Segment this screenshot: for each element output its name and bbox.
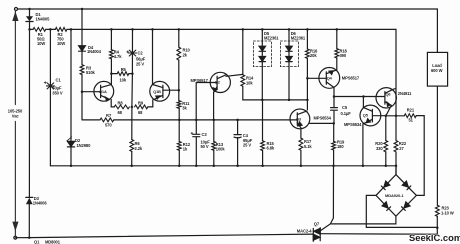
- bridge diode top-left: [384, 181, 390, 187]
- svg-text:2k: 2k: [183, 52, 188, 57]
- node: second rail junctions: [28, 28, 31, 31]
- wire: R18 branch: [336, 29, 338, 70]
- svg-text:Vac: Vac: [12, 114, 20, 119]
- resistor R11: [177, 101, 181, 109]
- svg-text:27: 27: [399, 146, 404, 151]
- svg-text:Q7: Q7: [314, 221, 320, 226]
- svg-text:3k: 3k: [182, 105, 187, 110]
- wire: Q1B collector from rail: [152, 29, 154, 84]
- transistor Q3: [290, 109, 310, 138]
- svg-text:1k: 1k: [183, 146, 188, 151]
- wire: Q4 output line to Q6 base: [334, 96, 376, 98]
- svg-text:10W: 10W: [37, 41, 45, 46]
- transistor Q1A: [94, 81, 114, 107]
- wire: R13 branch: [213, 120, 215, 166]
- node: Q1A base tap: [81, 90, 84, 93]
- wire: Q3 emitter to R17 and to C5 node: [310, 122, 334, 124]
- resistor R13: [212, 142, 216, 151]
- svg-text:MPS6517: MPS6517: [191, 78, 209, 83]
- svg-text:2.2k: 2.2k: [135, 146, 143, 151]
- resistor R10: [177, 47, 181, 60]
- resistor R14: [241, 75, 245, 86]
- svg-text:C2: C2: [138, 51, 144, 56]
- svg-text:180: 180: [337, 144, 344, 149]
- wire: Q2 collector diagonal to R14 line: [226, 74, 243, 76]
- wire: bottom return wire: [15, 228, 437, 238]
- svg-text:MPS6534: MPS6534: [344, 122, 362, 127]
- diode D2 zener 1N2984: [67, 137, 75, 166]
- resistor R16: [306, 49, 310, 58]
- svg-text:R7: R7: [106, 113, 112, 118]
- svg-text:Q1: Q1: [34, 239, 40, 244]
- svg-text:C3: C3: [202, 132, 208, 137]
- svg-text:5.1k: 5.1k: [304, 144, 312, 149]
- resistor R15: [261, 141, 265, 151]
- wire: D2 branch: [70, 29, 72, 141]
- resistor R23: [435, 205, 439, 216]
- node: Q4 base tap: [306, 77, 309, 80]
- wire: R16 / Q3 collector / Q4 base branch: [307, 29, 318, 109]
- resistor R12: [177, 142, 181, 151]
- resistor R6: [130, 140, 134, 152]
- svg-text:4.7k: 4.7k: [114, 54, 122, 59]
- wire: Q5 base node line with R21: [386, 116, 424, 196]
- capacitor C4: [234, 135, 241, 138]
- svg-text:50 V: 50 V: [201, 144, 209, 149]
- svg-text:Q1A: Q1A: [99, 89, 107, 94]
- wire: ground bus: [50, 165, 396, 167]
- wire: R4 bottom to Q1A collector: [110, 59, 112, 85]
- node: Q6 base line junctions: [333, 95, 336, 98]
- svg-text:68: 68: [138, 110, 143, 115]
- wire: emitter joins: [111, 106, 153, 108]
- resistor R5: [117, 72, 129, 76]
- wire: top rail from input terminal to load: [16, 9, 437, 52]
- svg-text:10k: 10k: [246, 81, 253, 86]
- resistor R9: [135, 105, 148, 109]
- wire: R19 / gate branch: [320, 123, 334, 230]
- transistor Q2: [210, 72, 230, 120]
- svg-text:600 W: 600 W: [431, 68, 443, 73]
- svg-text:MDA920-1: MDA920-1: [385, 193, 404, 198]
- wire: AC source line with arrows: [14, 11, 16, 236]
- transistor Q4: [319, 68, 340, 97]
- diode D3 1N4006: [26, 197, 33, 237]
- node: ground bus junctions: [70, 165, 73, 168]
- diode D1 1N4005: [26, 9, 33, 29]
- wire: Q5 collector up: [362, 97, 364, 108]
- node: D3 / bottom wire junction: [28, 236, 31, 239]
- svg-text:C1: C1: [56, 77, 62, 82]
- capacitor C3: [191, 132, 200, 137]
- node: R4/R5 and C2/R5 junctions: [110, 72, 113, 75]
- svg-text:51: 51: [409, 118, 414, 123]
- resistor R22: [394, 141, 398, 152]
- svg-text:MD8001: MD8001: [45, 239, 61, 244]
- svg-text:MPS6517: MPS6517: [342, 76, 360, 81]
- svg-text:68: 68: [118, 110, 123, 115]
- wire: C5 branch: [333, 97, 335, 124]
- wire: R14 branch: [243, 29, 262, 100]
- wire: reference node line: [262, 99, 307, 101]
- svg-text:R8: R8: [118, 100, 124, 105]
- svg-text:MZ2361: MZ2361: [291, 35, 306, 40]
- wire: divider branch R10/R11/R12: [178, 29, 181, 165]
- node: R23 / return loop junction: [436, 226, 439, 229]
- wire: load bottom to R23: [436, 86, 438, 228]
- dashed box D5: [253, 41, 271, 67]
- triac Q7 MAC2-4: [313, 228, 320, 241]
- bridge diode top-right: [402, 181, 408, 187]
- svg-text:Q2: Q2: [215, 80, 221, 85]
- arrow down (AC input): [12, 222, 18, 232]
- svg-text:SeekIC.com: SeekIC.com: [409, 232, 460, 243]
- dashed box D6: [280, 41, 298, 67]
- svg-text:2N4911: 2N4911: [398, 91, 412, 96]
- wire: long node line to Q3 base: [114, 119, 290, 121]
- wire: C2 branch down through emitter node to R6: [131, 29, 134, 165]
- capacitor C1 (electrolytic, asterisk style): [44, 82, 54, 89]
- wire: R4 branch: [110, 29, 112, 49]
- zener D5 MZ2361 (two in series): [259, 29, 265, 100]
- svg-text:MPS6534: MPS6534: [314, 116, 332, 121]
- load box: [427, 52, 447, 86]
- wire: left vertical D1-D3 column: [28, 29, 30, 197]
- resistor R19: [332, 141, 336, 150]
- capacitor C2 (electrolytic, asterisk style): [127, 50, 137, 56]
- svg-text:C5: C5: [342, 105, 348, 110]
- node: emitter resistor junction: [131, 106, 134, 109]
- svg-text:Q1B: Q1B: [153, 89, 161, 94]
- svg-text:390: 390: [340, 53, 347, 58]
- svg-text:570: 570: [105, 123, 112, 128]
- diode D4 1N4004: [79, 46, 86, 65]
- resistor R18: [335, 49, 339, 58]
- svg-text:Q3: Q3: [296, 117, 302, 122]
- wire: R17 bottom: [300, 150, 302, 166]
- wire: R5 leads: [111, 73, 132, 75]
- svg-text:Q5: Q5: [363, 113, 369, 118]
- node: C5/R19 junction: [332, 122, 335, 125]
- svg-text:10W: 10W: [57, 41, 65, 46]
- svg-text:R9: R9: [138, 100, 144, 105]
- svg-text:350 V: 350 V: [52, 91, 63, 96]
- wire: line-sense branch (top rail to D4): [81, 9, 83, 46]
- transistor Q1B: [150, 81, 170, 107]
- node: long node line junctions: [178, 119, 181, 122]
- bridge diode bottom-left: [382, 202, 388, 208]
- wire: rail right end down to bridge: [395, 29, 397, 174]
- resistor R4: [110, 50, 114, 59]
- transistor Q5: [360, 105, 386, 166]
- resistor R20: [384, 141, 388, 152]
- svg-text:1N2980: 1N2980: [77, 143, 92, 148]
- terminal: bottom input: [14, 236, 17, 239]
- wire: sense node to Q1A base and down to R7: [82, 75, 100, 120]
- resistor R2: [55, 28, 67, 32]
- svg-text:25 V: 25 V: [243, 142, 251, 147]
- svg-text:MAC2-4: MAC2-4: [297, 228, 312, 233]
- wire: Q1B base to divider: [170, 89, 179, 91]
- svg-text:25 V: 25 V: [136, 61, 144, 66]
- capacitor C5: [331, 108, 338, 111]
- svg-text:510k: 510k: [86, 70, 96, 75]
- svg-text:R5: R5: [121, 67, 127, 72]
- resistor R17: [299, 138, 303, 150]
- wire: R15 branch: [262, 100, 264, 166]
- svg-text:0.1μF: 0.1μF: [341, 111, 352, 116]
- node: zener reference line junctions: [261, 99, 264, 102]
- wire: C3 branch: [195, 120, 197, 166]
- svg-text:330: 330: [376, 146, 383, 151]
- svg-text:Q6: Q6: [386, 92, 392, 97]
- resistor R21: [404, 114, 416, 118]
- wire: second rail (rectified bus): [30, 28, 397, 30]
- resistor R8: [114, 105, 129, 109]
- bridge rectifier MDA920-1: [330, 166, 437, 228]
- svg-text:Q4: Q4: [327, 76, 333, 81]
- svg-text:10k: 10k: [120, 78, 127, 83]
- node: Q5 base line junctions: [385, 115, 388, 118]
- transistor Q6: [376, 88, 397, 116]
- bridge diode bottom-right: [404, 202, 410, 208]
- wire: R20 leads: [385, 116, 387, 166]
- node: Q1B base tap: [178, 89, 181, 92]
- resistor R1: [33, 28, 46, 32]
- svg-text:20k: 20k: [310, 53, 317, 58]
- svg-text:1-10 W: 1-10 W: [441, 210, 454, 215]
- svg-text:1N4006: 1N4006: [33, 201, 48, 206]
- resistor R3: [80, 65, 84, 75]
- node: top rail taps (D1, D4): [28, 8, 31, 11]
- wire: Q2 base branch: [196, 83, 210, 120]
- wire: C1 branch: [49, 29, 51, 165]
- terminal: top input: [15, 8, 18, 11]
- svg-text:1N4004: 1N4004: [87, 49, 102, 54]
- svg-text:1N4005: 1N4005: [36, 17, 51, 22]
- svg-text:R21: R21: [407, 107, 415, 112]
- resistor R7: [100, 118, 114, 122]
- svg-text:100k: 100k: [216, 146, 226, 151]
- svg-text:6.8k: 6.8k: [267, 146, 275, 151]
- svg-text:MZ2361: MZ2361: [264, 35, 279, 40]
- zener D6 MZ2361 (two in series): [286, 29, 292, 100]
- arrow up (AC input): [12, 11, 18, 21]
- wire: C4 branch: [237, 120, 239, 166]
